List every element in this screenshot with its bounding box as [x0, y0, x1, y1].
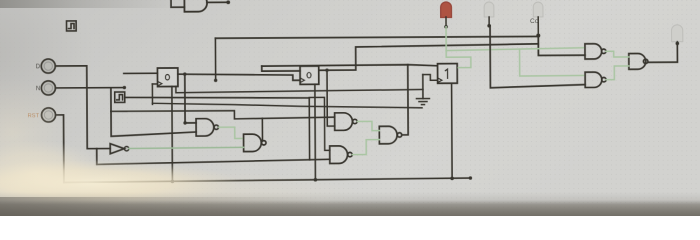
svg-text:Co: Co — [530, 18, 539, 25]
